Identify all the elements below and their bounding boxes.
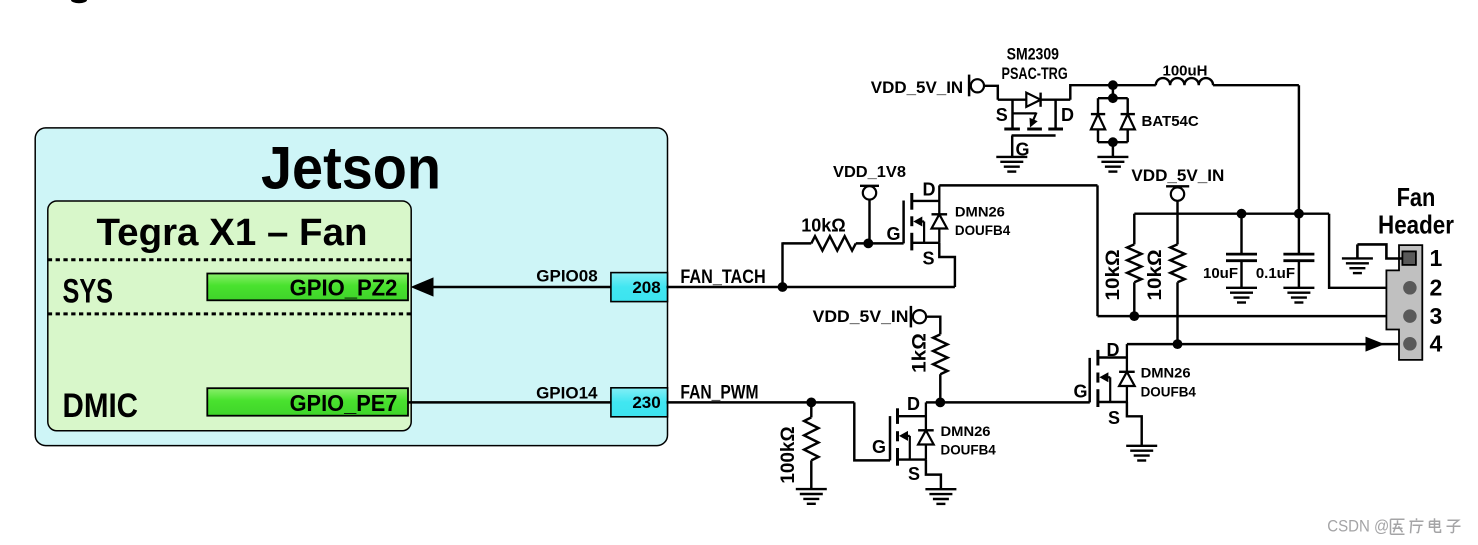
pin GPIO_PE7 — [207, 388, 408, 416]
ground BAT54C — [1097, 156, 1128, 158]
node pin3 net / resistor — [1129, 311, 1139, 321]
capacitor C1 10uF — [1237, 209, 1247, 219]
pin 1 square pad — [1402, 251, 1416, 265]
wire gate drive to Q3 — [940, 401, 1090, 403]
node FAN_TACH junction — [778, 282, 788, 292]
pin GPIO_PZ2 — [207, 274, 408, 301]
svg-text:Tegra X1 – Fan: Tegra X1 – Fan — [97, 212, 368, 254]
svg-text:10uF: 10uF — [1203, 265, 1238, 282]
svg-text:FAN_PWM: FAN_PWM — [680, 382, 758, 403]
svg-text:SYS: SYS — [63, 272, 114, 310]
node gate junction — [863, 239, 873, 249]
resistor R 10k (pin4 pull-up) — [1170, 244, 1184, 282]
svg-text:230: 230 — [632, 393, 660, 412]
arrowhead to pin 4 — [1366, 337, 1385, 352]
wire FAN_TACH — [667, 286, 955, 288]
svg-text:10kΩ: 10kΩ — [1103, 249, 1124, 300]
resistor R 100k (FAN_PWM pull-down) — [810, 402, 812, 417]
wire Q4 drain to inductor — [1070, 85, 1156, 100]
ground Q2 source — [925, 488, 956, 490]
svg-text:4: 4 — [1430, 331, 1443, 357]
dashed separator 1 — [48, 258, 411, 261]
wire VDD_1V8 stem — [868, 200, 870, 244]
pad 230 — [611, 388, 668, 417]
transistor Q2 DMN26 (PWM input) — [896, 408, 899, 424]
svg-text:G: G — [1015, 140, 1029, 160]
wire FAN_TACH from pad 208 to GPIO_PZ2 — [430, 286, 611, 288]
wire VDD_5V rail — [1134, 212, 1329, 214]
wire pin3 net — [1098, 315, 1404, 317]
svg-text:FAN_TACH: FAN_TACH — [680, 267, 765, 288]
svg-text:DMN26: DMN26 — [955, 204, 1005, 220]
svg-text:100uH: 100uH — [1162, 63, 1207, 80]
wire drain down to pin3 net — [1096, 185, 1098, 316]
svg-text:S: S — [922, 249, 934, 269]
svg-text:G: G — [886, 224, 900, 244]
svg-text:BAT54C: BAT54C — [1142, 113, 1199, 130]
pin 2 pad — [1403, 281, 1417, 295]
svg-text:DOUFB4: DOUFB4 — [1141, 385, 1196, 401]
node Q2 drain / gate drive — [935, 398, 945, 408]
svg-text:DMN26: DMN26 — [1141, 366, 1191, 382]
Jetson block — [35, 128, 667, 446]
svg-text:D: D — [1061, 105, 1074, 125]
svg-text:G: G — [872, 437, 886, 457]
svg-text:Header: Header — [1378, 209, 1454, 239]
svg-text:10kΩ: 10kΩ — [801, 216, 845, 236]
svg-text:Fan: Fan — [1397, 182, 1436, 212]
pin 3 pad — [1403, 309, 1417, 323]
svg-text:CSDN @: CSDN @ — [1327, 518, 1389, 536]
svg-text:2: 2 — [1430, 275, 1443, 301]
svg-text:3: 3 — [1430, 303, 1443, 329]
connector J1 fan header body — [1386, 245, 1422, 360]
svg-text:DMIC: DMIC — [63, 387, 139, 425]
ground C1 — [1226, 287, 1257, 289]
resistor R 1k — [933, 334, 947, 374]
wire inductor to rail corner — [1213, 84, 1299, 86]
ground pin1 — [1342, 257, 1373, 259]
svg-text:S: S — [908, 464, 920, 484]
svg-text:SM2309: SM2309 — [1007, 45, 1059, 64]
wire VDD to Q4 source — [984, 86, 998, 100]
svg-text:S: S — [996, 105, 1008, 125]
svg-text:GPIO_PE7: GPIO_PE7 — [290, 390, 398, 416]
wire pin1 to ground — [1357, 244, 1402, 258]
cropped text fragment top-left — [71, 0, 87, 3]
svg-text:GPIO08: GPIO08 — [536, 266, 597, 285]
node pin4 net / resistor — [1173, 339, 1183, 349]
wire up from FAN_TACH junction — [781, 242, 783, 287]
resistor R 10k FAN_TACH — [783, 242, 812, 244]
wire VDD to 1k resistor — [926, 317, 940, 335]
ground Q3 source — [1126, 445, 1157, 447]
pin 4 pad — [1403, 337, 1417, 351]
transistor Q1 DMN26 (FAN_TACH buffer) — [910, 193, 913, 210]
svg-text:G: G — [1073, 382, 1087, 402]
svg-text:1kΩ: 1kΩ — [909, 333, 930, 373]
wire FAN_PWM to Q2 gate — [854, 402, 890, 460]
svg-text:0.1uF: 0.1uF — [1256, 265, 1295, 282]
node FAN_PWM junction — [806, 398, 816, 408]
node BAT54C top — [1108, 80, 1118, 90]
svg-text:DOUFB4: DOUFB4 — [955, 223, 1010, 239]
svg-text:208: 208 — [632, 278, 660, 297]
node BAT54C bottom — [1108, 137, 1118, 147]
wire Q3 drain to fan header pin 4 — [1127, 343, 1403, 345]
wire Q2 source to ground — [926, 460, 941, 490]
svg-text:DOUFB4: DOUFB4 — [941, 442, 996, 458]
svg-text:Jetson: Jetson — [261, 134, 441, 201]
arrowhead into GPIO_PZ2 — [411, 277, 434, 296]
ground Q4 gate — [996, 156, 1027, 158]
svg-text:1: 1 — [1430, 245, 1443, 271]
svg-text:GPIO_PZ2: GPIO_PZ2 — [290, 275, 398, 301]
ground C2 — [1283, 287, 1314, 289]
svg-text:S: S — [1108, 408, 1120, 428]
svg-text:VDD_5V_IN: VDD_5V_IN — [813, 307, 909, 326]
Tegra X1 Fan block — [48, 201, 411, 431]
svg-text:D: D — [923, 179, 936, 199]
svg-text:VDD_1V8: VDD_1V8 — [833, 164, 906, 181]
wire Q1 source loop — [939, 243, 955, 287]
transistor Q3 DMN26 (output driver) — [1096, 350, 1099, 366]
resistor R 10k (pin3 pull-up) — [1133, 214, 1135, 245]
wire rail to fan header pin 2 — [1329, 214, 1403, 288]
wire Q2 drain — [926, 401, 940, 403]
svg-text:GPIO14: GPIO14 — [536, 383, 598, 402]
svg-text:DMN26: DMN26 — [941, 424, 991, 440]
wire Q3 source to ground — [1127, 402, 1142, 446]
diode D1 BAT54C — [1112, 85, 1114, 98]
svg-text:100kΩ: 100kΩ — [778, 426, 799, 483]
pad 208 — [611, 273, 668, 302]
capacitor C2 0.1uF — [1294, 209, 1304, 219]
svg-text:D: D — [1107, 340, 1120, 360]
svg-text:10kΩ: 10kΩ — [1145, 249, 1166, 300]
svg-text:D: D — [907, 394, 920, 414]
wire Q1 drain to pull-up column — [939, 184, 1097, 186]
svg-text:VDD_5V_IN: VDD_5V_IN — [1131, 166, 1224, 185]
svg-text:PSAC-TRG: PSAC-TRG — [1002, 64, 1068, 83]
ground R100k — [796, 488, 827, 490]
svg-text:VDD_5V_IN: VDD_5V_IN — [871, 78, 963, 97]
wire FAN_PWM — [667, 401, 855, 403]
wire FAN_PWM from pad 230 — [408, 401, 611, 403]
dashed separator 2 — [48, 312, 411, 315]
